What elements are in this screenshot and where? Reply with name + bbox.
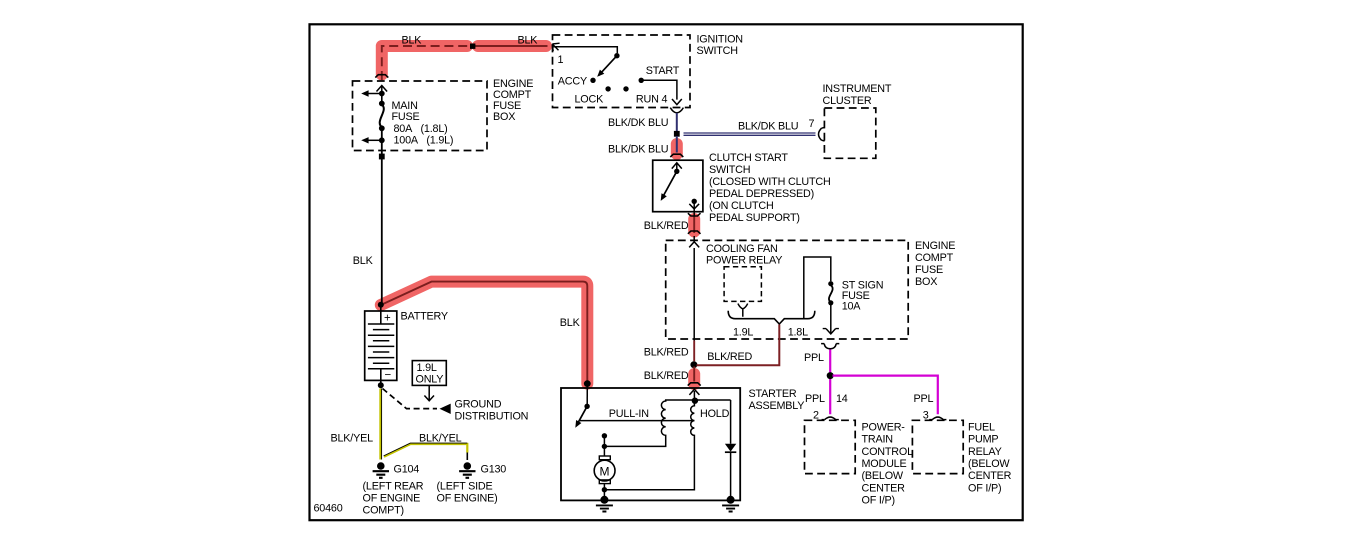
- diode CR1: [725, 444, 736, 452]
- svg-text:BATTERY: BATTERY: [401, 311, 448, 323]
- wire core BLK/RED inside highlight to starter: [693, 367, 695, 382]
- solenoid switch blade: [578, 406, 587, 423]
- node above main fuse: [379, 91, 385, 97]
- svg-text:BLK: BLK: [560, 317, 581, 329]
- arrowhead to ground distribution: [440, 404, 451, 414]
- wire BLK (dashed) ignition feed into main fuse box, over highlight: [382, 46, 471, 80]
- svg-text:INSTRUMENT: INSTRUMENT: [823, 83, 892, 95]
- svg-text:3: 3: [923, 409, 929, 421]
- svg-text:(BELOW: (BELOW: [968, 458, 1010, 470]
- 1.9L only note box: [412, 361, 446, 386]
- svg-text:START: START: [646, 65, 680, 77]
- connector at instrument cluster pin 7: [819, 127, 825, 141]
- option bracket 1.9L/1.8L: [728, 311, 815, 324]
- node battery wire at starter: [584, 380, 591, 387]
- pin 1 arrow at ignition switch: [552, 43, 559, 51]
- switch blade to ACCY: [599, 56, 617, 76]
- ground node diode: [727, 496, 735, 504]
- contact unlabeled: [623, 86, 628, 91]
- fuel pump relay dashed outline: [912, 420, 963, 473]
- node below main fuse: [379, 137, 385, 143]
- junction node BLK/DK BLU: [674, 131, 680, 137]
- wire through fuse box 2: [693, 248, 695, 341]
- svg-text:MODULE: MODULE: [862, 458, 907, 470]
- svg-text:ENGINE: ENGINE: [915, 240, 955, 252]
- svg-text:60460: 60460: [314, 503, 343, 515]
- pin arrow into fuse box: [377, 86, 388, 96]
- main fuse element: [380, 105, 384, 128]
- svg-text:BLK/DK BLU: BLK/DK BLU: [608, 117, 668, 129]
- svg-text:CENTER: CENTER: [968, 470, 1012, 482]
- wire BLK/YEL to G104: [379, 389, 381, 460]
- connector terminal above clutch switch: [670, 154, 683, 157]
- wire BLK/RED below fuse box 2 (dark red): [693, 341, 695, 362]
- connector at fuel pump relay pin 3: [929, 417, 946, 420]
- node at hold coil top: [692, 398, 698, 404]
- svg-text:COMPT: COMPT: [915, 252, 954, 264]
- svg-text:RELAY: RELAY: [968, 446, 1002, 458]
- contact ACCY: [590, 78, 595, 83]
- svg-text:SWITCH: SWITCH: [697, 45, 738, 57]
- ground G130: [464, 462, 472, 470]
- svg-text:BOX: BOX: [493, 111, 515, 123]
- svg-text:BLK/RED: BLK/RED: [707, 351, 752, 363]
- node below ST SIGN fuse: [828, 300, 833, 305]
- svg-text:10A: 10A: [842, 301, 862, 313]
- svg-text:IGNITION: IGNITION: [697, 34, 743, 46]
- contact LOCK: [605, 86, 610, 91]
- wire to fuse terminal: [381, 94, 383, 104]
- wire BLK/RED dark red to 1.8L bracket: [697, 325, 780, 366]
- engine compt fuse box (top-left) dashed outline: [353, 81, 488, 151]
- hold coil: [604, 401, 694, 490]
- svg-text:CLUTCH START: CLUTCH START: [709, 152, 788, 164]
- wire core BLK battery to starter (inside highlight): [381, 282, 588, 381]
- clutch start switch outline: [653, 160, 703, 212]
- connector below relay: [738, 304, 748, 317]
- starter assembly outline: [561, 388, 740, 500]
- pivot node: [614, 53, 619, 58]
- svg-text:M: M: [600, 465, 610, 479]
- battery positive node: [378, 302, 384, 308]
- svg-text:HOLD: HOLD: [700, 408, 730, 420]
- wire fuse to box edge with arrow: [830, 304, 832, 333]
- branch arrow left (bottom): [368, 139, 382, 141]
- wire BLK/RED into fuse box 2: [693, 236, 695, 242]
- solenoid pivot node: [584, 404, 589, 409]
- motor brush top: [599, 456, 610, 460]
- clutch pivot node: [674, 169, 679, 174]
- branch arrow left (top): [368, 93, 382, 95]
- connector at PCM pin 2: [822, 417, 839, 420]
- svg-text:7: 7: [809, 118, 815, 130]
- svg-text:(CLOSED WITH CLUTCH: (CLOSED WITH CLUTCH: [709, 176, 831, 188]
- svg-text:LOCK: LOCK: [575, 93, 605, 105]
- pull-in coil: [604, 400, 665, 446]
- svg-text:BLK: BLK: [353, 255, 374, 267]
- svg-text:BLK/DK BLU: BLK/DK BLU: [738, 121, 798, 133]
- junction node PPL: [827, 372, 834, 379]
- svg-text:OF ENGINE: OF ENGINE: [363, 492, 421, 504]
- svg-text:PPL: PPL: [914, 393, 934, 405]
- engine compt fuse box 2 dashed outline: [666, 240, 909, 339]
- svg-text:BLK/DK BLU: BLK/DK BLU: [608, 143, 668, 155]
- connector terminal pair on BLK/RED: [688, 213, 701, 234]
- svg-text:−: −: [385, 370, 392, 382]
- ground node motor: [600, 496, 608, 504]
- top rail from entry pin: [666, 400, 731, 402]
- ground symbol motor: [596, 505, 613, 511]
- wire START to pin 4: [641, 80, 677, 99]
- svg-text:FUSE: FUSE: [392, 111, 420, 123]
- svg-text:RUN 4: RUN 4: [636, 93, 668, 105]
- svg-text:POWER RELAY: POWER RELAY: [706, 255, 782, 267]
- wire BLK fuse box to battery: [381, 128, 383, 304]
- svg-text:(BELOW: (BELOW: [862, 470, 904, 482]
- solenoid fixed contact: [602, 433, 607, 438]
- svg-text:POWER-: POWER-: [862, 422, 906, 434]
- svg-text:2: 2: [813, 409, 819, 421]
- svg-text:TRAIN: TRAIN: [862, 434, 893, 446]
- svg-text:PPL: PPL: [805, 393, 825, 405]
- ground G104: [377, 462, 385, 470]
- wire BLK junction to ignition switch, over highlight: [473, 45, 548, 47]
- svg-text:CENTER: CENTER: [862, 482, 906, 494]
- battery negative node: [378, 382, 384, 388]
- svg-text:BLK/RED: BLK/RED: [644, 220, 689, 232]
- svg-text:COOLING FAN: COOLING FAN: [706, 243, 778, 255]
- svg-text:OF ENGINE): OF ENGINE): [437, 492, 498, 504]
- svg-text:BLK/YEL: BLK/YEL: [331, 432, 374, 444]
- wire BLK/DK BLU double line to instrument cluster: [684, 133, 816, 135]
- connector below ignition switch: [670, 108, 683, 113]
- svg-text:OF I/P): OF I/P): [862, 495, 895, 507]
- clutch switch blade: [663, 171, 677, 196]
- instrument cluster dashed outline: [824, 108, 875, 158]
- svg-text:+: +: [384, 313, 391, 325]
- wire motor to ground: [603, 484, 605, 500]
- ignition switch dashed outline: [553, 35, 691, 108]
- svg-text:ASSEMBLY: ASSEMBLY: [749, 400, 805, 412]
- ground symbol diode: [722, 505, 739, 511]
- svg-text:1: 1: [558, 54, 564, 66]
- connector cup below fuse box 2: [821, 344, 839, 349]
- svg-text:1.9L: 1.9L: [733, 327, 753, 339]
- wire inside ignition switch to pivot: [554, 47, 618, 53]
- wire highlight: BLK fuse box to junction: [382, 46, 467, 75]
- svg-text:COMPT): COMPT): [363, 505, 404, 517]
- svg-text:FUEL: FUEL: [968, 422, 995, 434]
- svg-text:100A (1.9L): 100A (1.9L): [394, 135, 454, 147]
- splice node below fuse box: [379, 154, 385, 160]
- pin arrow into clutch switch: [672, 163, 682, 171]
- svg-text:ACCY: ACCY: [558, 76, 587, 88]
- frame border: [310, 24, 1023, 520]
- svg-text:G130: G130: [481, 463, 507, 475]
- svg-text:PUMP: PUMP: [968, 434, 998, 446]
- svg-text:PEDAL SUPPORT): PEDAL SUPPORT): [709, 212, 800, 224]
- junction node BLK/RED: [690, 361, 697, 368]
- pin arrow into fuse box 2: [689, 242, 699, 248]
- svg-text:1.8L: 1.8L: [788, 327, 808, 339]
- ground distribution dashed wire: [383, 389, 438, 409]
- svg-text:G104: G104: [394, 463, 420, 475]
- battery outline: [365, 311, 397, 380]
- connector terminal at main fuse box: [375, 75, 388, 78]
- wire highlight: BLK junction to ignition switch: [478, 40, 546, 52]
- contact START: [639, 78, 644, 83]
- fuse terminal bottom: [379, 125, 385, 131]
- wire to BLK/RED connector: [693, 201, 695, 216]
- svg-text:DISTRIBUTION: DISTRIBUTION: [455, 411, 529, 423]
- wire highlight: BLK/RED clutch switch to fuse box: [688, 219, 700, 232]
- svg-text:CLUSTER: CLUSTER: [823, 95, 872, 107]
- cooling fan power relay dashed outline: [724, 267, 761, 302]
- arrow down from contact: [689, 204, 699, 209]
- svg-text:PULL-IN: PULL-IN: [609, 408, 649, 420]
- svg-text:STARTER: STARTER: [749, 388, 797, 400]
- svg-text:(LEFT REAR: (LEFT REAR: [363, 480, 424, 492]
- wire core inside BLK/RED highlight: [693, 216, 695, 233]
- clutch output contact: [692, 199, 697, 204]
- svg-text:BLK/YEL: BLK/YEL: [419, 432, 462, 444]
- svg-text:80A (1.8L): 80A (1.8L): [394, 123, 448, 135]
- svg-text:1.9L: 1.9L: [417, 362, 437, 374]
- pin arrow into starter assembly: [689, 389, 699, 401]
- svg-text:FUSE: FUSE: [915, 264, 943, 276]
- svg-text:BLK: BLK: [518, 35, 539, 47]
- battery plates: [368, 324, 394, 369]
- wire highlight: BLK/DK BLU junction to clutch start switch: [671, 144, 683, 154]
- wire 1.8L branch from bracket to fuse: [804, 257, 831, 319]
- wire blade to coils (pull-in feed): [580, 420, 695, 422]
- wire highlight: BLK battery positive to starter assembly: [381, 282, 588, 384]
- motor M1: [594, 460, 615, 481]
- node above ST SIGN fuse: [828, 281, 833, 286]
- svg-text:BLK: BLK: [402, 35, 423, 47]
- wire PPL vertical to PCM: [829, 350, 831, 415]
- svg-text:BOX: BOX: [915, 276, 937, 288]
- powertrain control module dashed outline: [805, 420, 856, 473]
- wire to solenoid switch pivot: [586, 384, 588, 404]
- svg-text:PEDAL DEPRESSED): PEDAL DEPRESSED): [709, 188, 814, 200]
- wire highlight: BLK/RED fuse box to starter assembly: [688, 374, 700, 384]
- node at pull-in return: [602, 444, 607, 449]
- junction node BLK splice: [470, 44, 475, 49]
- battery bottom stub: [380, 369, 382, 385]
- svg-text:PPL: PPL: [804, 352, 824, 364]
- node hold return at motor: [602, 487, 607, 492]
- ST SIGN fuse element: [829, 285, 833, 302]
- svg-text:(ON CLUTCH: (ON CLUTCH: [709, 200, 774, 212]
- pin 4 arrow down: [672, 99, 682, 105]
- wire contact to motor: [603, 436, 605, 456]
- fuse terminal top: [379, 101, 385, 107]
- svg-text:BLK/RED: BLK/RED: [644, 347, 689, 359]
- svg-text:OF I/P): OF I/P): [968, 482, 1001, 494]
- svg-text:GROUND: GROUND: [455, 399, 502, 411]
- wire BLK/DK BLU stem: [676, 113, 678, 134]
- arrow from note box: [424, 385, 434, 400]
- svg-text:ONLY: ONLY: [416, 374, 444, 386]
- wire BLK/YEL to G130: [384, 444, 467, 457]
- wire BLK/DK BLU into clutch switch (over highlight): [676, 136, 678, 153]
- svg-text:CONTROL: CONTROL: [862, 446, 914, 458]
- svg-text:14: 14: [836, 393, 848, 405]
- diode branch wire: [730, 400, 732, 500]
- svg-text:BLK/RED: BLK/RED: [644, 370, 689, 382]
- svg-text:SWITCH: SWITCH: [709, 164, 750, 176]
- svg-text:(LEFT SIDE: (LEFT SIDE: [437, 480, 493, 492]
- motor brush bottom: [599, 480, 610, 484]
- connector terminal above starter: [688, 383, 701, 386]
- wire PPL branch to fuel pump relay: [833, 376, 938, 415]
- battery top stub: [380, 305, 382, 325]
